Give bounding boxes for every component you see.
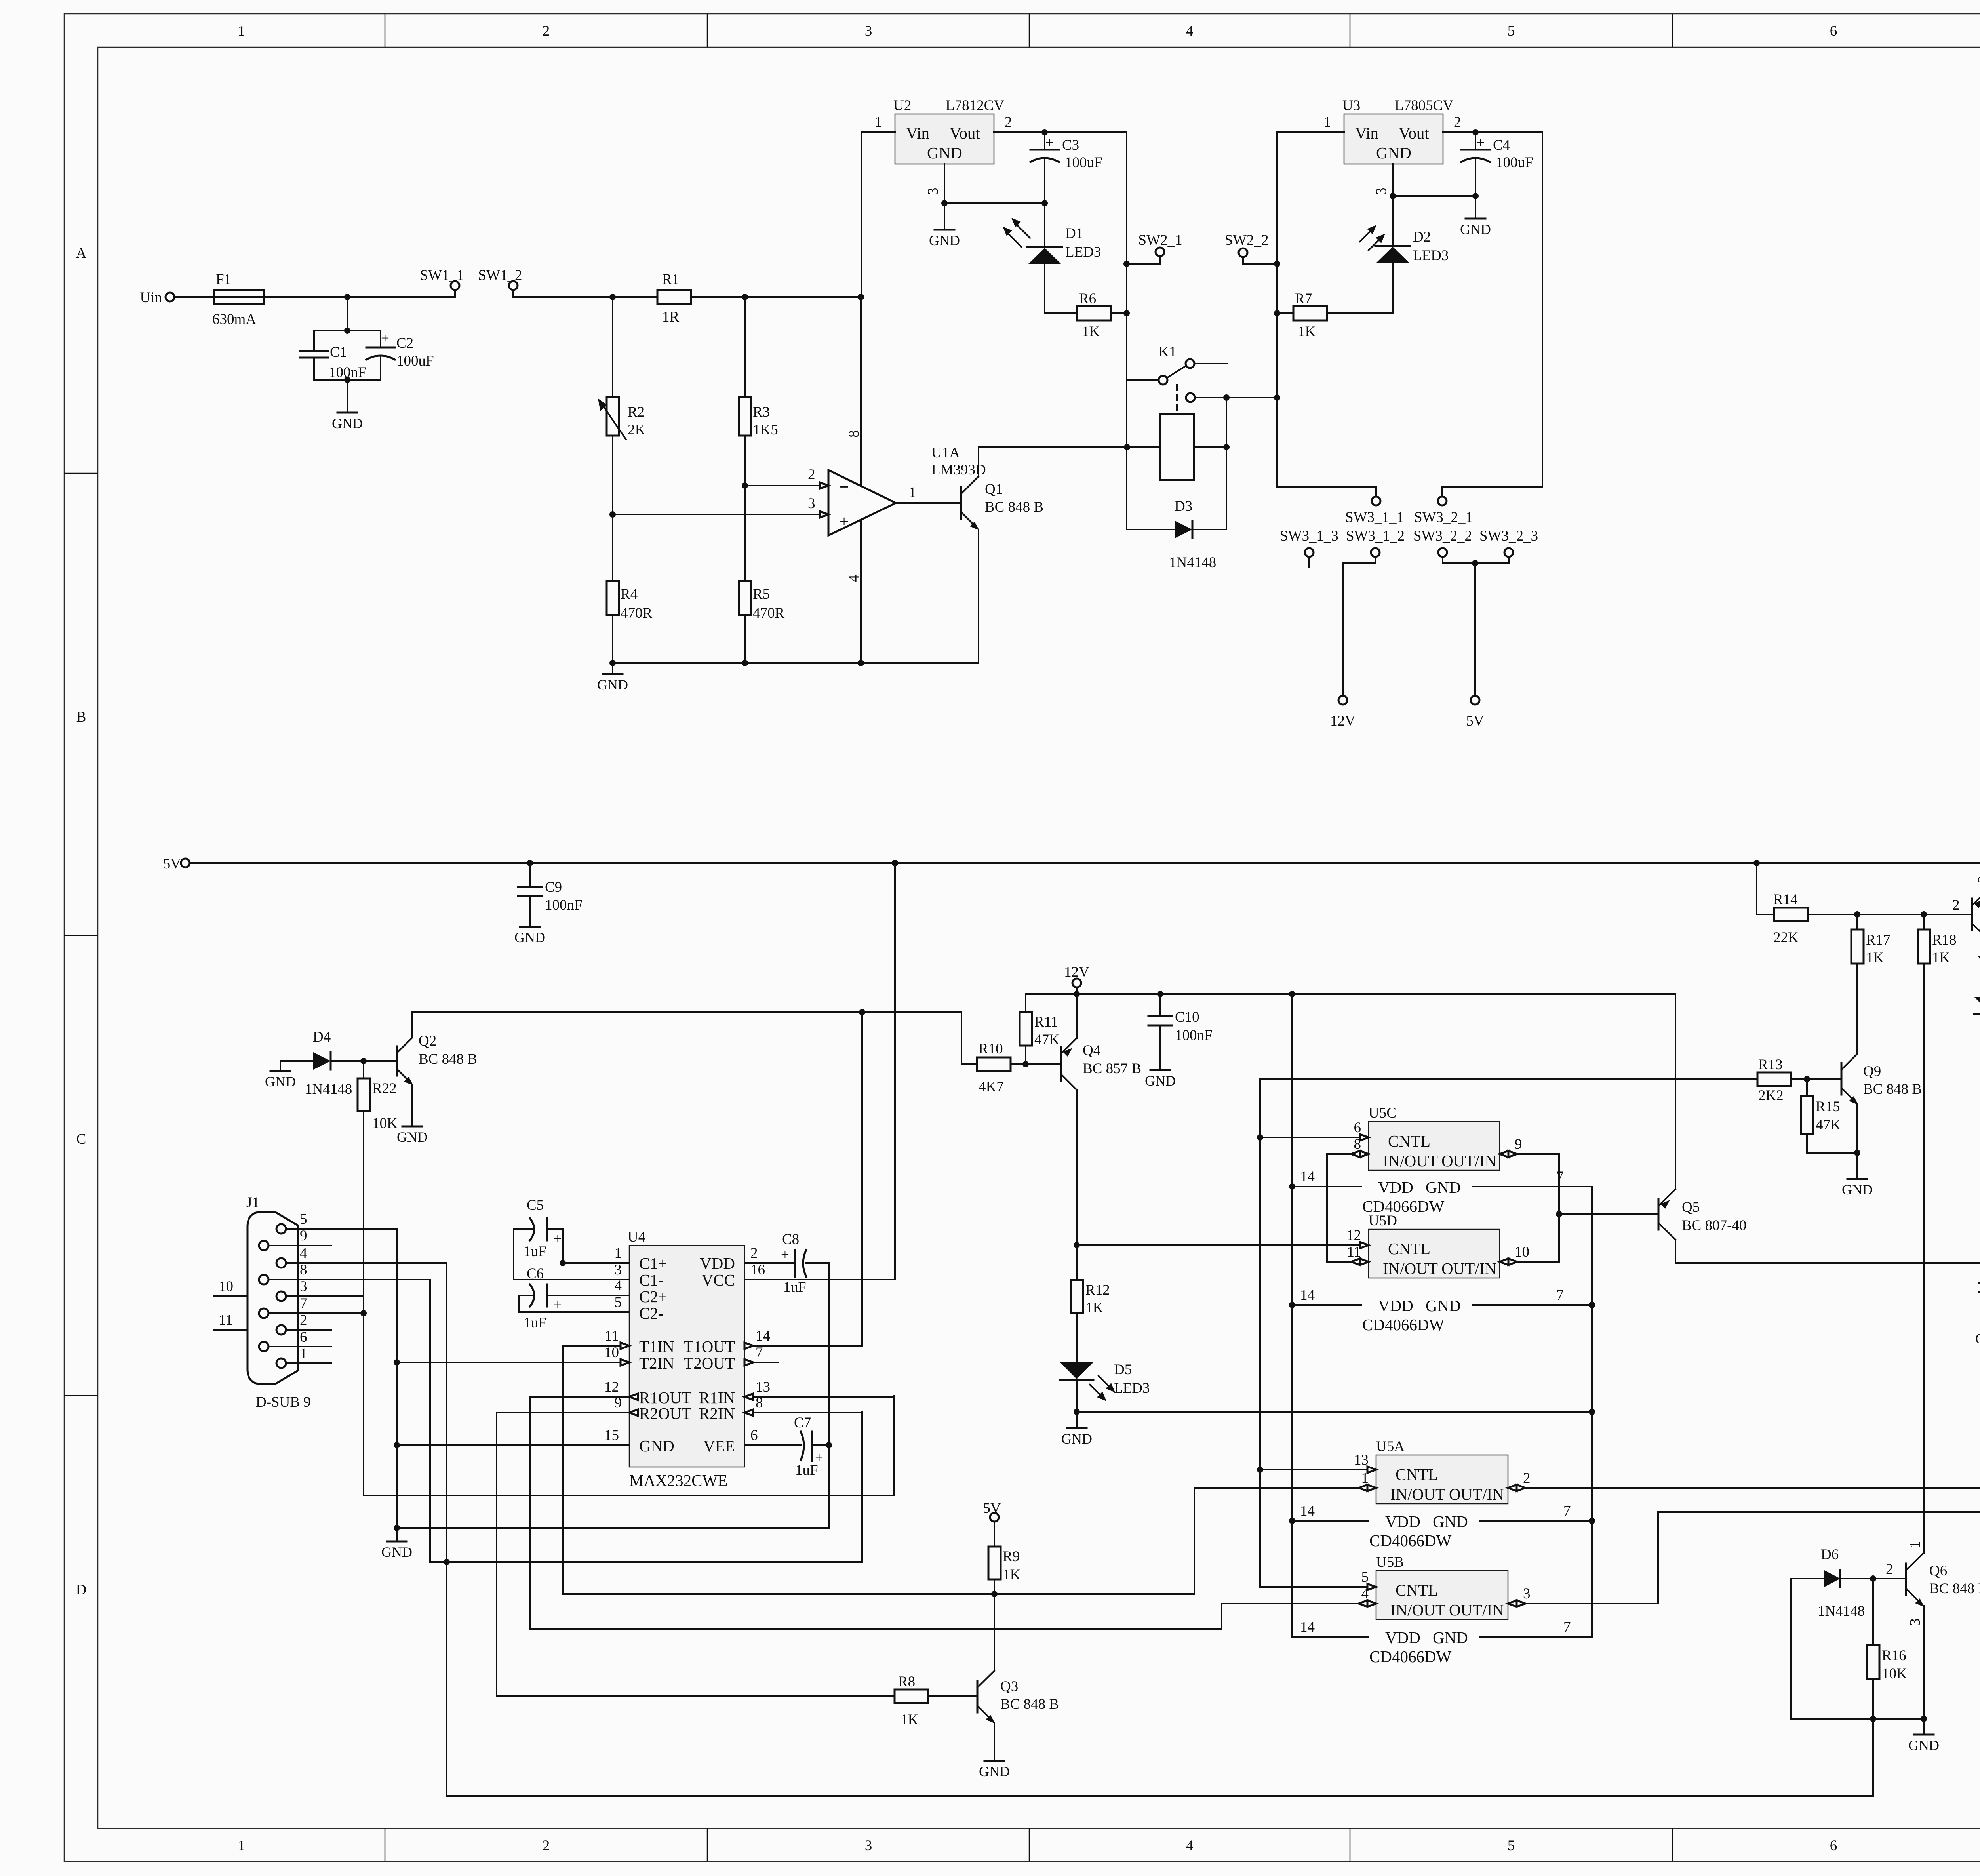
U5C pin 9 wire [1500,1136,1559,1157]
svg-text:L7812CV: L7812CV [946,97,1004,114]
wire T1OUT net vertical [859,1009,865,1562]
connector J1 D-SUB 9 [246,1194,311,1410]
U5D pin 11 wire [1327,1244,1369,1265]
junction [1041,129,1048,135]
op-amp pin 4 supply wire [846,520,862,663]
svg-text:630mA: 630mA [212,311,256,328]
switch terminal SW3_2_1 [1414,497,1473,526]
svg-text:U3: U3 [1342,97,1360,114]
svg-text:MAX232CWE: MAX232CWE [629,1471,727,1489]
svg-text:R15: R15 [1816,1099,1840,1115]
svg-text:GND: GND [1145,1073,1176,1089]
junction [1274,310,1280,316]
svg-text:U4: U4 [628,1229,645,1245]
op-amp pin 2 input arrow [808,467,828,489]
J1 pin 1 wire [286,1346,331,1363]
svg-text:OUT/IN: OUT/IN [1449,1485,1504,1503]
svg-text:Vout: Vout [950,124,980,142]
svg-text:C3: C3 [1062,137,1079,153]
svg-text:U5A: U5A [1376,1438,1405,1455]
wire J1 pin4 net vertical [446,1263,447,1796]
svg-text:R13: R13 [1758,1057,1783,1073]
wire 12Vout feed row [1675,1260,1980,1266]
U5B pin 3 wire PGC net [1508,1586,1658,1607]
capacitor C1 and C2 block wiring [314,297,381,383]
svg-text:3: 3 [1523,1586,1531,1602]
svg-text:BC 807-40: BC 807-40 [1682,1217,1746,1234]
svg-text:1N4148: 1N4148 [1169,554,1216,571]
svg-text:1: 1 [1323,114,1331,130]
junction [742,482,748,489]
LED D1 [1003,203,1101,313]
svg-text:Q4: Q4 [1083,1042,1100,1059]
junction [1289,991,1295,997]
svg-text:R14: R14 [1773,891,1798,908]
junction [892,860,898,866]
U5D supply row [1292,1287,1592,1334]
wire U5 ctl to Q5 base [1556,1154,1658,1262]
J1 pin 11 stub [214,1312,247,1330]
svg-text:F1: F1 [216,271,231,288]
U5A pin 2 wire PGD net [1508,1470,1980,1491]
svg-text:GND: GND [1975,1331,1980,1347]
capacitor C10 [1148,994,1213,1069]
resistor R17 [1851,914,1891,1054]
U5B pin 4 wire [1222,1586,1376,1607]
svg-text:CNTL: CNTL [1388,1132,1430,1150]
svg-text:9: 9 [1515,1136,1522,1152]
svg-text:R18: R18 [1932,932,1957,948]
svg-text:2K: 2K [628,422,646,438]
svg-text:16: 16 [750,1262,765,1278]
J1 pin 10 stub [214,1278,247,1296]
transistor Q3 [977,1594,1059,1760]
U5B pin 5 wire [1260,1569,1376,1590]
op-amp U1A [828,445,986,535]
junction [560,1260,566,1266]
svg-text:100nF: 100nF [1175,1027,1213,1044]
svg-text:1K: 1K [901,1712,919,1728]
svg-text:22K: 22K [1773,929,1799,946]
svg-text:U2: U2 [893,97,911,114]
wire Q1 collector to relay [979,446,1127,448]
capacitor C9 [518,863,583,926]
analog switch U5A [1376,1438,1508,1504]
svg-text:Q6: Q6 [1929,1563,1947,1579]
svg-text:R16: R16 [1882,1647,1906,1664]
svg-text:SW2_2: SW2_2 [1225,232,1269,248]
switch terminal SW2_2 [1225,232,1277,264]
svg-text:VCC: VCC [702,1271,735,1289]
svg-text:C5: C5 [527,1197,544,1213]
svg-text:1: 1 [615,1245,622,1261]
junction [1854,911,1860,918]
U5D pin 12 arrow [1346,1227,1369,1248]
J1 pin 8 wire [268,1262,430,1280]
svg-text:8: 8 [756,1395,763,1411]
svg-text:3: 3 [300,1278,307,1295]
svg-text:GND: GND [514,929,545,945]
svg-text:+: + [1476,135,1485,151]
svg-text:K1: K1 [1158,344,1176,360]
ground bus wire [609,660,979,666]
svg-text:1: 1 [1975,953,1980,961]
svg-text:3: 3 [1975,876,1980,884]
svg-text:4: 4 [1186,1838,1194,1854]
op-amp output pin 1 wire [896,484,961,503]
svg-text:1uF: 1uF [783,1279,806,1295]
svg-text:7: 7 [1563,1503,1571,1519]
svg-text:R2OUT: R2OUT [639,1404,691,1423]
ground under C10 [1145,1070,1176,1089]
U4 pin 12 wire R1OUT [530,1379,1222,1629]
switch terminal SW3_1_3 [1280,528,1338,567]
svg-text:3: 3 [865,1838,872,1854]
svg-text:VDD: VDD [1385,1628,1420,1647]
junction [609,294,616,300]
svg-text:R12: R12 [1085,1282,1110,1298]
svg-text:VDD: VDD [700,1254,735,1272]
op-amp pin 3 input arrow [808,495,828,518]
junction [941,200,948,206]
ground symbol under bus [597,663,628,693]
svg-text:5: 5 [300,1211,307,1227]
svg-text:C2: C2 [396,335,413,351]
svg-text:GND: GND [1842,1182,1873,1198]
svg-text:100nF: 100nF [545,897,583,913]
svg-text:5V: 5V [1466,713,1484,729]
svg-text:2: 2 [1523,1470,1531,1486]
junction Q4 collector to U5D [1074,1242,1080,1248]
svg-text:Uin: Uin [140,289,162,306]
junction [527,860,533,866]
resistor R5 [739,486,785,663]
junction [1274,261,1280,267]
U5C pin 6 wire [1260,1120,1369,1141]
transistor Q6 [1886,1541,1980,1719]
svg-text:SW3_1_3: SW3_1_3 [1280,528,1338,544]
svg-text:+: + [781,1247,789,1263]
svg-text:C4: C4 [1493,137,1510,153]
svg-text:4K7: 4K7 [979,1079,1004,1095]
ground under Q3 [979,1761,1010,1779]
U4 pin 13 wire R1IN [744,1379,894,1400]
svg-text:12: 12 [1346,1227,1361,1244]
svg-text:2: 2 [808,467,815,483]
svg-text:GND: GND [1460,221,1491,237]
wire 12V terminal stub [1076,987,1078,994]
svg-text:6: 6 [1830,23,1837,39]
wire R13 cntl net vertical [1257,1079,1263,1587]
svg-text:GND: GND [979,1764,1010,1779]
U2 pin 2 wire [994,114,1127,132]
svg-text:CNTL: CNTL [1388,1240,1430,1258]
ground below C1/C2 [332,380,363,431]
svg-text:1R: 1R [662,309,680,325]
U4 pin 16 wire VCC [744,863,895,1280]
U2 pin 3 wire [925,164,944,203]
svg-text:100uF: 100uF [1496,154,1533,171]
ground under C4 [1460,196,1491,237]
svg-text:8: 8 [1354,1136,1361,1152]
junction [1854,1150,1860,1156]
ground symbol bundle [381,1541,412,1560]
wire R22 to bundle [364,1111,894,1495]
junction [609,511,616,518]
svg-text:U1A: U1A [931,445,960,461]
junction [1921,1716,1927,1722]
svg-text:IN/OUT: IN/OUT [1383,1152,1438,1170]
transistor Q5 [1658,994,1746,1263]
ground under Q2 [397,1126,428,1145]
junction [1390,193,1396,199]
svg-text:14: 14 [756,1328,770,1344]
svg-text:14: 14 [1300,1169,1315,1185]
svg-text:4: 4 [1361,1586,1369,1602]
svg-text:1uF: 1uF [524,1315,546,1331]
svg-text:A: A [76,245,87,261]
svg-text:14: 14 [1300,1619,1315,1635]
svg-text:C1+: C1+ [639,1254,667,1272]
svg-text:LED3: LED3 [1065,244,1101,260]
svg-text:1K: 1K [1866,950,1884,966]
svg-text:4: 4 [615,1278,622,1294]
U5C pin 8 wire [1327,1136,1369,1157]
U4 pin 15 wire GND [397,1427,629,1445]
svg-text:GND: GND [381,1544,412,1560]
wire Q2 collector long [412,1011,961,1013]
svg-text:GND: GND [1433,1512,1468,1531]
svg-text:1K: 1K [1932,950,1950,966]
svg-text:BC 848 B: BC 848 B [1929,1581,1980,1597]
svg-text:CNTL: CNTL [1396,1465,1438,1484]
wire 12V switched rail down to SW3 [1277,132,1376,497]
svg-text:Q1: Q1 [985,481,1003,497]
svg-text:1K: 1K [1298,324,1316,340]
svg-text:100uF: 100uF [396,353,434,369]
wire [174,296,214,298]
svg-text:1uF: 1uF [524,1244,546,1260]
U5A pin 13 wire [1260,1452,1376,1473]
svg-text:Q9: Q9 [1863,1063,1881,1080]
svg-text:13: 13 [756,1379,770,1395]
svg-text:OUT/IN: OUT/IN [1441,1152,1496,1170]
U4 pin 9 wire R2OUT [497,1395,638,1696]
svg-text:1: 1 [1361,1470,1369,1486]
svg-text:LED3: LED3 [1413,248,1449,264]
svg-text:D: D [76,1582,87,1598]
U4 pin 2 wire VDD with capacitor C8 [744,1231,829,1295]
svg-text:47K: 47K [1034,1032,1060,1048]
svg-text:GND: GND [929,232,960,248]
svg-text:2K2: 2K2 [1758,1088,1784,1104]
power terminal 12V mid [1064,964,1089,987]
svg-text:Vin: Vin [906,124,929,142]
resistor R14 [1757,863,1972,946]
svg-text:47K: 47K [1816,1117,1841,1133]
svg-text:Q5: Q5 [1682,1199,1700,1215]
junction [1123,261,1130,267]
main 12V vertical wire [1126,132,1127,380]
switch terminal SW1_1 [420,267,464,297]
switch terminal SW3_1_1 [1345,497,1404,526]
svg-text:C: C [76,1131,86,1147]
U5A pin 1 wire [1194,1470,1376,1491]
ground under Q6 [1908,1719,1939,1753]
U4 pin 1 wire [563,1245,629,1263]
resistor R13 [1260,1057,1841,1104]
svg-text:2: 2 [1005,114,1012,130]
svg-text:GND: GND [397,1129,428,1145]
svg-text:R5: R5 [753,586,770,602]
svg-text:11: 11 [219,1312,233,1328]
svg-text:−: − [840,478,849,496]
svg-text:C1: C1 [330,344,347,360]
svg-text:14: 14 [1300,1287,1315,1303]
svg-text:R9: R9 [1003,1548,1020,1565]
ground left of D4 [265,1061,296,1089]
svg-text:5: 5 [1508,23,1515,39]
svg-text:Vout: Vout [1399,124,1429,142]
svg-text:6: 6 [1830,1838,1837,1854]
U5D pin 10 wire [1500,1244,1559,1265]
svg-text:1K: 1K [1082,324,1100,340]
svg-text:2: 2 [543,23,550,39]
svg-text:12V: 12V [1330,713,1356,729]
svg-text:SW3_2_3: SW3_2_3 [1479,528,1538,544]
svg-text:5: 5 [1361,1569,1369,1585]
wire op-amp non-inverting input [613,514,820,515]
svg-text:SW3_2_1: SW3_2_1 [1414,509,1473,526]
resistor R12 [1071,1280,1110,1362]
power terminal 5V R9 [983,1500,1001,1522]
diode D6 [1791,1547,1906,1619]
svg-text:LED3: LED3 [1114,1380,1150,1396]
junction [1472,129,1479,135]
junction [1753,860,1760,866]
U4 pin 5 label [615,1294,622,1310]
svg-text:1: 1 [300,1346,307,1362]
transistor Q2 [397,1012,477,1126]
svg-text:2: 2 [300,1312,307,1328]
wire U5C pin8 to U5D pin11 [1326,1154,1328,1262]
power terminal 5V [1466,696,1484,729]
wire 5V reg output down to SW3 [1442,132,1542,497]
IC U4 MAX232CWE [628,1229,744,1489]
ground under D5 [1061,1412,1092,1447]
transistor Q4 [1061,994,1141,1280]
junction [1223,444,1230,450]
svg-text:1: 1 [238,23,246,39]
resistor R11 [1020,994,1060,1064]
svg-text:BC 848 B: BC 848 B [1000,1696,1059,1712]
svg-text:R8: R8 [898,1674,915,1690]
capacitor C1 [300,344,366,381]
switch terminal SW3_1_2 [1343,528,1405,696]
svg-text:R2IN: R2IN [699,1404,735,1423]
svg-text:GND: GND [597,677,628,693]
U4 pin 11 wire T1IN [563,1328,629,1594]
U4 pin 7 wire T2OUT stub [744,1345,779,1366]
svg-text:+: + [840,512,849,530]
capacitor C11 [1979,1277,1980,1326]
junction [1472,193,1479,199]
wire D5 row to gnd vertical [1077,1411,1592,1413]
svg-text:2: 2 [1952,897,1960,913]
svg-text:T1OUT: T1OUT [683,1337,735,1356]
svg-text:15: 15 [604,1427,619,1444]
svg-text:VDD: VDD [1378,1178,1413,1196]
svg-text:Vin: Vin [1355,124,1378,142]
svg-text:10: 10 [1515,1244,1529,1260]
transistor Q9 [1841,1054,1922,1153]
capacitor C4 (polarized) [1461,132,1533,196]
svg-text:1: 1 [1907,1541,1923,1549]
switch terminal SW1_2 [478,267,522,297]
wire 5V rail [190,862,1980,864]
U5C supply row [1292,1169,1592,1215]
svg-text:7: 7 [1563,1619,1571,1635]
svg-text:D-SUB 9: D-SUB 9 [256,1394,311,1410]
svg-text:+: + [554,1231,562,1247]
junction [1870,1575,1876,1582]
wire C8 to gnd bundle [397,1263,829,1528]
wire to 5V terminal [1474,563,1476,696]
op-amp pin 8 supply wire [846,297,862,485]
wire [513,296,657,298]
power terminal 5V rail left [163,856,190,872]
svg-text:1: 1 [874,114,882,130]
svg-text:7: 7 [1556,1287,1564,1303]
wire op-amp inverting input [745,485,820,486]
svg-text:C2+: C2+ [639,1287,667,1306]
svg-text:9: 9 [615,1395,622,1411]
capacitor C6 [519,1266,629,1331]
J1 pin 4 wire [286,1245,447,1263]
svg-text:BC 848 B: BC 848 B [1863,1081,1922,1097]
svg-text:10K: 10K [372,1115,398,1131]
switch terminal SW3_2_3 [1475,528,1538,563]
wire 12V rail [1026,993,1675,995]
wire U3 gnd row [1393,195,1475,197]
svg-text:10K: 10K [1882,1666,1907,1682]
svg-text:2: 2 [750,1245,758,1261]
svg-text:11: 11 [1347,1244,1361,1260]
wire long bottom gnd [447,1795,1873,1797]
resistor R22 [358,1061,398,1131]
svg-text:VDD: VDD [1385,1512,1420,1531]
svg-text:R10: R10 [979,1041,1003,1057]
svg-text:3: 3 [925,188,941,195]
resistor R16 [1867,1579,1907,1796]
junction [360,1058,367,1064]
svg-text:GND: GND [1908,1737,1939,1753]
svg-text:D4: D4 [313,1029,331,1045]
U4 pin 3 wire [514,1262,629,1280]
capacitor C2 (polarized) [366,330,434,369]
svg-text:3: 3 [615,1262,622,1278]
svg-text:2: 2 [1886,1561,1893,1577]
svg-text:CNTL: CNTL [1396,1581,1438,1599]
svg-text:VEE: VEE [703,1437,735,1455]
U4 pin 6 wire VEE with capacitor C7 [744,1415,832,1478]
junction [1041,200,1048,206]
switch terminal SW3_2_2 [1413,528,1475,563]
svg-text:100uF: 100uF [1065,154,1102,171]
wire C5 left leg [513,1229,514,1280]
resistor R3 [739,297,778,486]
analog switch U5B [1376,1554,1508,1619]
